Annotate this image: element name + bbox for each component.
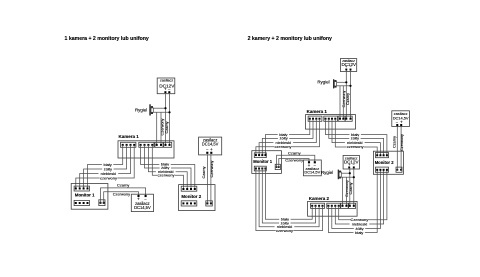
svg-text:Czarny: Czarny <box>346 93 350 105</box>
kamera 2 box <box>308 201 358 216</box>
wire DC12V - down to kamera 2 <box>353 168 355 205</box>
wire rygiel branch to kamera2 lock 2 <box>345 177 347 206</box>
kamera1 strip C lock (right) <box>338 116 345 121</box>
wire zolty kamera1-B2 to monitor2 T3 <box>145 145 192 189</box>
label bialy (right staircase) <box>159 162 170 166</box>
label zolty (rt top-left) <box>278 137 289 141</box>
svg-text:czerwony: czerwony <box>158 172 175 177</box>
svg-text:Czarny: Czarny <box>392 136 396 148</box>
wire rygiel bottom lead (kamera 2) <box>341 176 354 178</box>
label niebieski (rt bottom-right) <box>350 222 370 226</box>
wire Czerwony monitor1 to zasilacz + <box>104 192 139 203</box>
wire Czarny monitor2 to zasilacz - <box>206 154 208 203</box>
wire czerwony kamera1-A4 to monitor1 T1 <box>76 145 134 189</box>
wire bialy kamera1-A1 to monitor1 T4 (right) <box>265 119 309 155</box>
wire rygiel top lead to + wire <box>153 107 165 109</box>
svg-text:Czarny: Czarny <box>117 183 129 188</box>
junction dot rygiel/+ (kamera 1) <box>345 81 347 83</box>
monitor1 power block (right) <box>275 164 280 169</box>
label zolty (rt top-right) <box>349 137 360 141</box>
wire bialy kamera1-A1 to monitor1 T4 <box>88 145 123 189</box>
svg-text:Rygiel: Rygiel <box>321 170 333 175</box>
wire Czerwony monitor2 to zasilacz + (right) <box>400 126 402 170</box>
monitor 1 box (right) <box>252 151 282 174</box>
wire zolty kamera1-A2 to monitor1 T3 (right) <box>262 119 313 155</box>
svg-text:Rygiel: Rygiel <box>135 107 147 112</box>
label bialy (rt top-left) <box>278 133 289 137</box>
kamera 1 terminal strip D (power) <box>164 142 172 147</box>
wire Czarny monitor1 to zasilacz - (right) <box>277 155 315 167</box>
wire zolty kamera1-B2 to monitor2 T3 (right) <box>329 119 384 156</box>
svg-text:Kamera 1: Kamera 1 <box>119 134 140 139</box>
wire rygiel branch to kamera 1 lock terminal 1 <box>156 112 158 145</box>
kamera1 strip D power (right) <box>345 116 352 121</box>
wire rygiel branch to kamera1 lock 1 <box>339 86 341 119</box>
label niebieski (rt bottom-left) <box>275 225 295 229</box>
label czerwony (rt top-left) <box>274 145 292 149</box>
svg-text:−: − <box>206 147 209 152</box>
electric strike symbol Rygiel <box>149 104 153 115</box>
wire Czarny monitor1 to zasilacz - <box>101 188 146 203</box>
wire bialy kamera2-A1 to monitor1 bottom T4 <box>265 169 312 220</box>
wire niebieski kamera1-B3 to monitor2 T2 (right) <box>332 119 380 156</box>
junction dot rygiel/+ wire <box>164 107 166 109</box>
power supply zasilacz DC12V (kamera 2) <box>343 155 359 169</box>
label zolty (rt bottom-left) <box>279 221 290 225</box>
wire niebieski kamera1-A3 to monitor1 T2 (right) <box>259 119 316 155</box>
label zolty (rt bottom-right) <box>354 227 365 231</box>
svg-text:Czarny: Czarny <box>349 182 353 194</box>
wire niebieski kamera2-A3 to monitor1 bottom T2 <box>259 169 319 227</box>
label zolty (right staircase) <box>160 166 171 170</box>
monitor 1 power terminal block <box>99 200 105 206</box>
kamera1 strip A (right) <box>308 116 322 121</box>
label bialy (rt bottom-right) <box>354 231 365 235</box>
wire zolty kamera1-A2 to monitor1 T3 <box>84 145 127 189</box>
kamera 1 terminal strip A <box>121 142 136 147</box>
wire Czerwony monitor1 to zasilacz + (right) <box>279 159 309 168</box>
svg-text:Monitor 2: Monitor 2 <box>375 160 395 165</box>
wire zolty kamera2-A2 to monitor1 bottom T3 <box>262 169 315 224</box>
svg-text:Czarny: Czarny <box>288 150 301 155</box>
svg-text:Czerwony: Czerwony <box>285 158 303 163</box>
kamera 1 box <box>118 141 174 158</box>
monitor2 power block (right) <box>396 167 402 172</box>
wire DC12V - down to kamera 1 (right) <box>350 70 352 118</box>
wire rygiel branch to kamera2 lock 1 <box>342 177 344 206</box>
wire DC12V + down to kamera 2 <box>349 168 351 205</box>
svg-text:DC14,5V: DC14,5V <box>202 142 219 147</box>
label bialy (rt bottom-left) <box>279 217 290 221</box>
svg-text:Czerwony: Czerwony <box>400 134 404 151</box>
power supply zasilacz DC14,5V (monitor 1) <box>131 194 153 211</box>
svg-text:Czerwony: Czerwony <box>113 191 130 196</box>
kamera2 strip A <box>311 203 325 208</box>
wire DC12V - down to kamera 1 <box>169 93 171 145</box>
wire zolty kamera2-B2 to monitor2 bottom T2 <box>332 170 381 229</box>
power supply zasilacz DC12V <box>157 78 175 94</box>
electric strike symbol rygiel (kamera 2) <box>338 170 342 180</box>
label niebieski (left staircase) <box>99 172 119 176</box>
wire rygiel bottom lead (kamera 1) <box>337 85 351 87</box>
wire bialy kamera1-B1 to monitor2 T4 <box>141 145 195 189</box>
label czerwony (right staircase) <box>157 173 175 177</box>
label niebieski (right staircase) <box>156 170 176 174</box>
kamera 1 terminal strip B <box>139 142 154 147</box>
label bialy (rt top-right) <box>350 133 361 137</box>
svg-text:czerwony: czerwony <box>347 144 364 149</box>
svg-text:Monitor 1: Monitor 1 <box>75 192 95 197</box>
svg-text:Czerwony: Czerwony <box>342 90 346 107</box>
kamera 1 box (right) <box>306 115 356 130</box>
wire rygiel branch to kamera 1 lock terminal 2 <box>160 112 162 145</box>
junction dot rygiel/- (kamera 2) <box>353 176 355 178</box>
monitor 2 bottom terminal strip <box>181 201 197 206</box>
wire czerwony kamera2-A4 to monitor1 bottom T1 <box>256 169 323 231</box>
power supply zasilacz DC14,5V (monitor 2, right) <box>392 111 410 127</box>
svg-text:czerwony: czerwony <box>276 228 293 233</box>
svg-text:DC14,5V: DC14,5V <box>304 170 320 175</box>
wire bialy kamera1-B1 to monitor2 T4 (right) <box>326 119 387 156</box>
label czerwony (rt bottom-left) <box>276 229 294 233</box>
monitor 1 bottom terminal strip <box>74 200 89 205</box>
svg-text:Monitor 2: Monitor 2 <box>181 194 201 199</box>
power supply zasilacz DC14,5V (monitor 1, right) <box>303 160 321 176</box>
monitor 2 top terminal strip <box>181 186 197 191</box>
wire rygiel branch to kamera1 lock 2 <box>342 86 344 119</box>
monitor 1 top terminal strip <box>74 186 89 191</box>
label niebieski (rt top-right) <box>345 141 365 145</box>
monitor 2 power terminal block <box>206 201 213 206</box>
monitor2 top strip (right) <box>376 153 389 158</box>
wire Czerwony monitor2 to zasilacz + <box>210 154 212 203</box>
label czerwony (rt top-right) <box>346 145 364 149</box>
svg-text:czerwony: czerwony <box>100 175 117 180</box>
svg-text:1 kamera + 2 monitory lub unif: 1 kamera + 2 monitory lub unifony <box>65 36 149 42</box>
svg-text:biały: biały <box>355 230 363 235</box>
wire niebieski kamera1-B3 to monitor2 T2 <box>148 145 187 189</box>
kamera1 strip B (right) <box>324 116 338 121</box>
monitor 2 box <box>179 185 215 211</box>
kamera2 strip C lock <box>341 203 349 208</box>
junction dot rygiel/- (kamera 1) <box>349 85 351 87</box>
svg-text:Rygiel: Rygiel <box>317 80 329 85</box>
wire czerwony kamera1-A4 to monitor1 T1 (right) <box>256 119 320 155</box>
kamera 1 terminal strip C (lock) <box>155 142 163 147</box>
svg-text:Czarny: Czarny <box>165 121 169 133</box>
kamera2 strip D power <box>349 203 356 208</box>
monitor 1 box <box>71 184 108 210</box>
wire bialy kamera2-B1 to monitor2 bottom T1 <box>328 170 377 233</box>
svg-text:Czarny: Czarny <box>202 166 206 178</box>
wire niebieski kamera2-B3 to monitor2 bottom T3 <box>335 170 383 224</box>
monitor 2 box (right) <box>373 151 403 174</box>
wire czerwony kamera1-B4 to monitor2 T1 <box>152 145 183 189</box>
svg-text:DC12V: DC12V <box>344 160 359 165</box>
label Czerwony (rt bottom-right) <box>351 218 369 222</box>
label bialy (left staircase) <box>102 163 113 167</box>
svg-text:2 kamery + 2 monitory lub unif: 2 kamery + 2 monitory lub unifony <box>248 36 332 42</box>
wire rygiel bottom lead to - wire <box>153 111 169 113</box>
svg-text:zasilacz: zasilacz <box>160 79 174 83</box>
svg-text:+: + <box>210 147 213 152</box>
svg-text:−: − <box>353 163 355 167</box>
wire rygiel top lead (kamera 1) <box>337 81 347 83</box>
label zolty (left staircase) <box>102 167 113 171</box>
wire DC12V + down to kamera 1 (right) <box>345 70 347 118</box>
label czerwony (left staircase) <box>100 176 118 180</box>
svg-text:Kamera 1: Kamera 1 <box>307 109 328 114</box>
junction dot rygiel/- wire <box>168 111 170 113</box>
label niebieski (rt top-left) <box>273 141 293 145</box>
svg-text:Czerwony: Czerwony <box>210 160 214 177</box>
junction dot rygiel/+ (kamera 2) <box>349 172 351 174</box>
wire DC12V + down to kamera 1 <box>165 93 167 145</box>
wire Czerwony kamera2-B4 to monitor2 bottom T4 <box>339 170 387 220</box>
svg-text:Monitor 1: Monitor 1 <box>253 159 273 164</box>
wire Czarny monitor2 to zasilacz - (right) <box>396 126 398 170</box>
monitor1 bottom strip (right) <box>254 166 266 171</box>
wire rygiel top lead (kamera 2) <box>341 172 350 174</box>
electric strike symbol rygiel (kamera 1) <box>333 79 337 88</box>
svg-text:DC14,5V: DC14,5V <box>134 205 151 210</box>
monitor1 top strip (right) <box>254 153 266 158</box>
svg-text:+: + <box>345 65 347 69</box>
svg-text:+: + <box>348 163 350 167</box>
monitor2 bottom strip (right) <box>376 167 389 172</box>
power supply zasilacz DC14,5V (monitor 2) <box>199 137 222 155</box>
svg-text:−: − <box>349 65 351 69</box>
power supply zasilacz DC12V (kamera 1) <box>340 59 356 72</box>
wire czerwony kamera1-B4 to monitor2 T1 (right) <box>335 119 377 156</box>
kamera2 strip B <box>327 203 341 208</box>
svg-text:czerwony: czerwony <box>275 144 292 149</box>
svg-text:Kamera 2: Kamera 2 <box>309 196 330 201</box>
wire niebieski kamera1-A3 to monitor1 T2 <box>80 145 131 189</box>
